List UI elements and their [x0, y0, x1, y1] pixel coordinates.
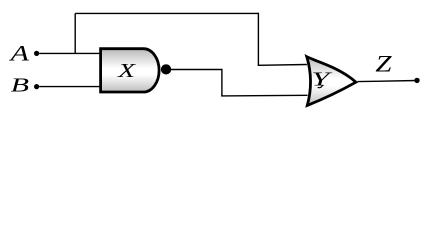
- OR gate Y body: [307, 57, 356, 106]
- wire into OR gate upper input: [258, 64, 307, 67]
- wire into OR gate lower input: [221, 94, 307, 97]
- svg-text:B: B: [11, 74, 29, 96]
- wire step down: [221, 69, 223, 96]
- NAND inversion bubble (filled): [161, 64, 171, 74]
- terminal dot Z: [414, 78, 419, 83]
- wire OR output: [358, 81, 418, 82]
- svg-text:A: A: [8, 40, 29, 65]
- NAND gate X body: [101, 49, 159, 92]
- terminal dot B: [34, 84, 39, 89]
- wire NAND output: [171, 69, 222, 71]
- wire A to NAND input: [39, 52, 101, 54]
- terminal dot A: [34, 51, 39, 56]
- wire down to OR upper input: [257, 13, 259, 66]
- wire top horizontal: [75, 12, 258, 14]
- svg-text:X: X: [117, 60, 136, 82]
- svg-text:Z: Z: [375, 51, 392, 77]
- wire B to NAND input: [39, 86, 101, 88]
- wire branch from A up: [74, 13, 76, 53]
